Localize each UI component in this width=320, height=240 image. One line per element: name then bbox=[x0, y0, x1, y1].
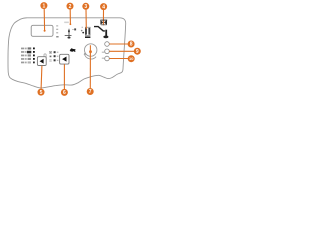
black square column with labels bbox=[54, 51, 59, 61]
callout 8 bbox=[128, 41, 135, 48]
callout 1 bbox=[40, 2, 47, 9]
cursor icon bbox=[70, 48, 76, 52]
svg-text:5: 5 bbox=[40, 90, 43, 96]
reverse button (target of 5) bbox=[37, 57, 46, 66]
svg-text:9: 9 bbox=[136, 49, 139, 55]
mini glyph column bbox=[49, 51, 51, 61]
stem 6 bbox=[63, 64, 65, 89]
stem 1 bbox=[44, 9, 46, 32]
callout 10 bbox=[128, 55, 135, 62]
small vertical card bbox=[44, 54, 46, 59]
display screen bbox=[31, 25, 53, 36]
take-up lever glyph (target of 4) bbox=[94, 27, 109, 39]
svg-text:1: 1 bbox=[43, 3, 46, 9]
tension unit glyph (target of 3) bbox=[81, 27, 91, 38]
faint label above needle bbox=[64, 22, 69, 24]
connector port bottom bbox=[105, 56, 110, 61]
svg-text:3: 3 bbox=[84, 4, 87, 10]
stem 7 bbox=[89, 45, 92, 88]
callout 6 bbox=[61, 89, 68, 96]
lead line 8 bbox=[109, 43, 128, 45]
connector port top bbox=[105, 42, 110, 47]
stem 2 bbox=[70, 9, 72, 25]
stem 5 bbox=[40, 66, 43, 89]
stitch list rows bbox=[21, 47, 35, 63]
lead line 10 bbox=[109, 58, 128, 60]
svg-text:4: 4 bbox=[102, 4, 105, 10]
connector port middle bbox=[105, 49, 110, 54]
callout 4 bbox=[100, 3, 107, 10]
svg-text:7: 7 bbox=[89, 89, 92, 95]
display side tick labels bbox=[56, 25, 58, 37]
svg-text:10: 10 bbox=[129, 56, 134, 61]
start/stop button (target of 6) bbox=[60, 54, 69, 64]
svg-text:8: 8 bbox=[130, 42, 133, 48]
callout 7 bbox=[87, 88, 94, 95]
machine outline bbox=[8, 18, 126, 88]
lead line 9 bbox=[109, 50, 134, 52]
callout 2 bbox=[67, 3, 74, 10]
callout 9 bbox=[134, 48, 141, 55]
callout 5 bbox=[38, 89, 45, 96]
spool glyph on stem 4 bbox=[100, 20, 107, 26]
stem 3 bbox=[85, 10, 87, 29]
handwheel knob (target of 7) bbox=[84, 44, 97, 59]
stem 4 bbox=[102, 10, 104, 25]
svg-text:2: 2 bbox=[69, 4, 72, 10]
knob side labels bbox=[102, 52, 105, 59]
callout 3 bbox=[82, 3, 89, 10]
needle bar glyph (target of 2) bbox=[65, 28, 76, 38]
svg-text:6: 6 bbox=[63, 90, 66, 96]
